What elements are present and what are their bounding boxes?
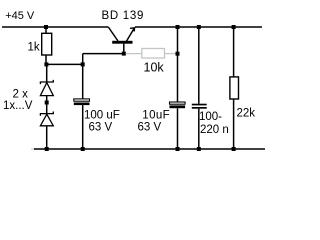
capacitor C2 10uF bottom plate (solid)	[170, 105, 186, 108]
zener diode D2 top lead	[46, 103, 48, 114]
zener diode D1 cathode bar	[40, 80, 53, 84]
node: junction dot between zeners	[45, 101, 49, 105]
wire: 22k bottom lead	[233, 99, 235, 149]
svg-text:1k: 1k	[28, 41, 40, 53]
wire: faint left tail of ground rail	[31, 148, 34, 150]
transistor Q1 BD139 collector diagonal	[108, 27, 118, 41]
wire: ground bottom rail	[34, 148, 265, 150]
capacitor C1 bottom lead	[82, 105, 84, 149]
capacitor C2 bottom lead	[177, 108, 179, 149]
node: 10k / output riser junction dot	[176, 52, 180, 56]
resistor 22k body	[230, 77, 239, 99]
svg-text:1x...V: 1x...V	[3, 100, 33, 112]
transistor Q1 emitter diagonal	[126, 27, 134, 41]
svg-text:63 V: 63 V	[89, 121, 113, 133]
svg-text:100 uF: 100 uF	[84, 110, 120, 122]
transistor Q1 emitter arrowhead	[130, 27, 135, 30]
wire: 1k top lead	[45, 27, 47, 33]
resistor 1k body	[42, 33, 52, 55]
zener diode D2 bottom lead	[46, 126, 48, 149]
transistor Q1 base lead	[123, 44, 125, 54]
svg-text:22k: 22k	[237, 107, 256, 119]
zener diode D1 triangle	[40, 83, 53, 96]
resistor 10k body (grey)	[142, 49, 165, 59]
node: top rail / 100-220n dot	[197, 25, 201, 29]
svg-text:10k: 10k	[144, 61, 165, 75]
wire: +45V top rail left segment	[2, 26, 108, 28]
wire: output top rail right segment	[135, 26, 262, 28]
wire: 1k bottom lead	[45, 55, 47, 64]
zener diode D2 cathode bar	[40, 112, 53, 116]
wire: horizontal from zener node to riser	[46, 63, 82, 65]
node: top rail / 1k junction dot	[44, 25, 48, 29]
zener diode D1 top lead	[46, 64, 48, 82]
node: base junction dot	[122, 52, 126, 56]
node: 1k / zener / base-wire junction dot	[44, 62, 48, 66]
zener diode D2 triangle	[40, 114, 53, 126]
wire: grey lead 10k to output riser	[165, 53, 178, 55]
wire: riser from base wire corner down to 100uF	[82, 54, 84, 99]
svg-text:10uF: 10uF	[142, 110, 170, 122]
capacitor C1 100uF bottom plate (solid)	[74, 103, 90, 106]
node: top rail / 22k dot	[232, 25, 236, 29]
svg-text:BD 139: BD 139	[102, 10, 145, 22]
capacitor C3 top plate	[192, 104, 207, 106]
capacitor C2 10uF top plate (hollow)	[170, 102, 186, 104]
wire: 22k top lead from rail	[233, 27, 235, 77]
wire: output riser from top rail down to 10uF	[177, 27, 179, 102]
node: C1 to ground rail dot	[81, 147, 85, 151]
svg-text:220 n: 220 n	[200, 124, 229, 136]
svg-text:+45 V: +45 V	[5, 10, 35, 22]
capacitor C3 bottom plate	[192, 107, 207, 109]
node: top rail / output riser dot	[176, 25, 180, 29]
capacitor C3 bottom lead	[198, 109, 200, 149]
node: C3 to ground rail dot	[197, 147, 201, 151]
wire: 100-220n top lead from rail	[198, 27, 200, 104]
node: C2 to ground rail dot	[176, 147, 180, 151]
wire: grey lead base dot to 10k	[126, 53, 142, 55]
capacitor C1 100uF top plate (hollow)	[74, 99, 90, 101]
wire: base node horizontal (black part)	[83, 53, 124, 55]
svg-text:100-: 100-	[199, 111, 222, 123]
svg-text:2 x: 2 x	[13, 88, 29, 100]
zener diode D1 bottom lead	[46, 96, 48, 103]
svg-text:63 V: 63 V	[138, 121, 162, 133]
transistor Q1 base bar	[112, 41, 132, 44]
node: 22k to ground rail dot	[232, 147, 236, 151]
node: riser / zener-wire junction dot	[81, 62, 85, 66]
node: zener chain to ground rail dot	[45, 147, 49, 151]
